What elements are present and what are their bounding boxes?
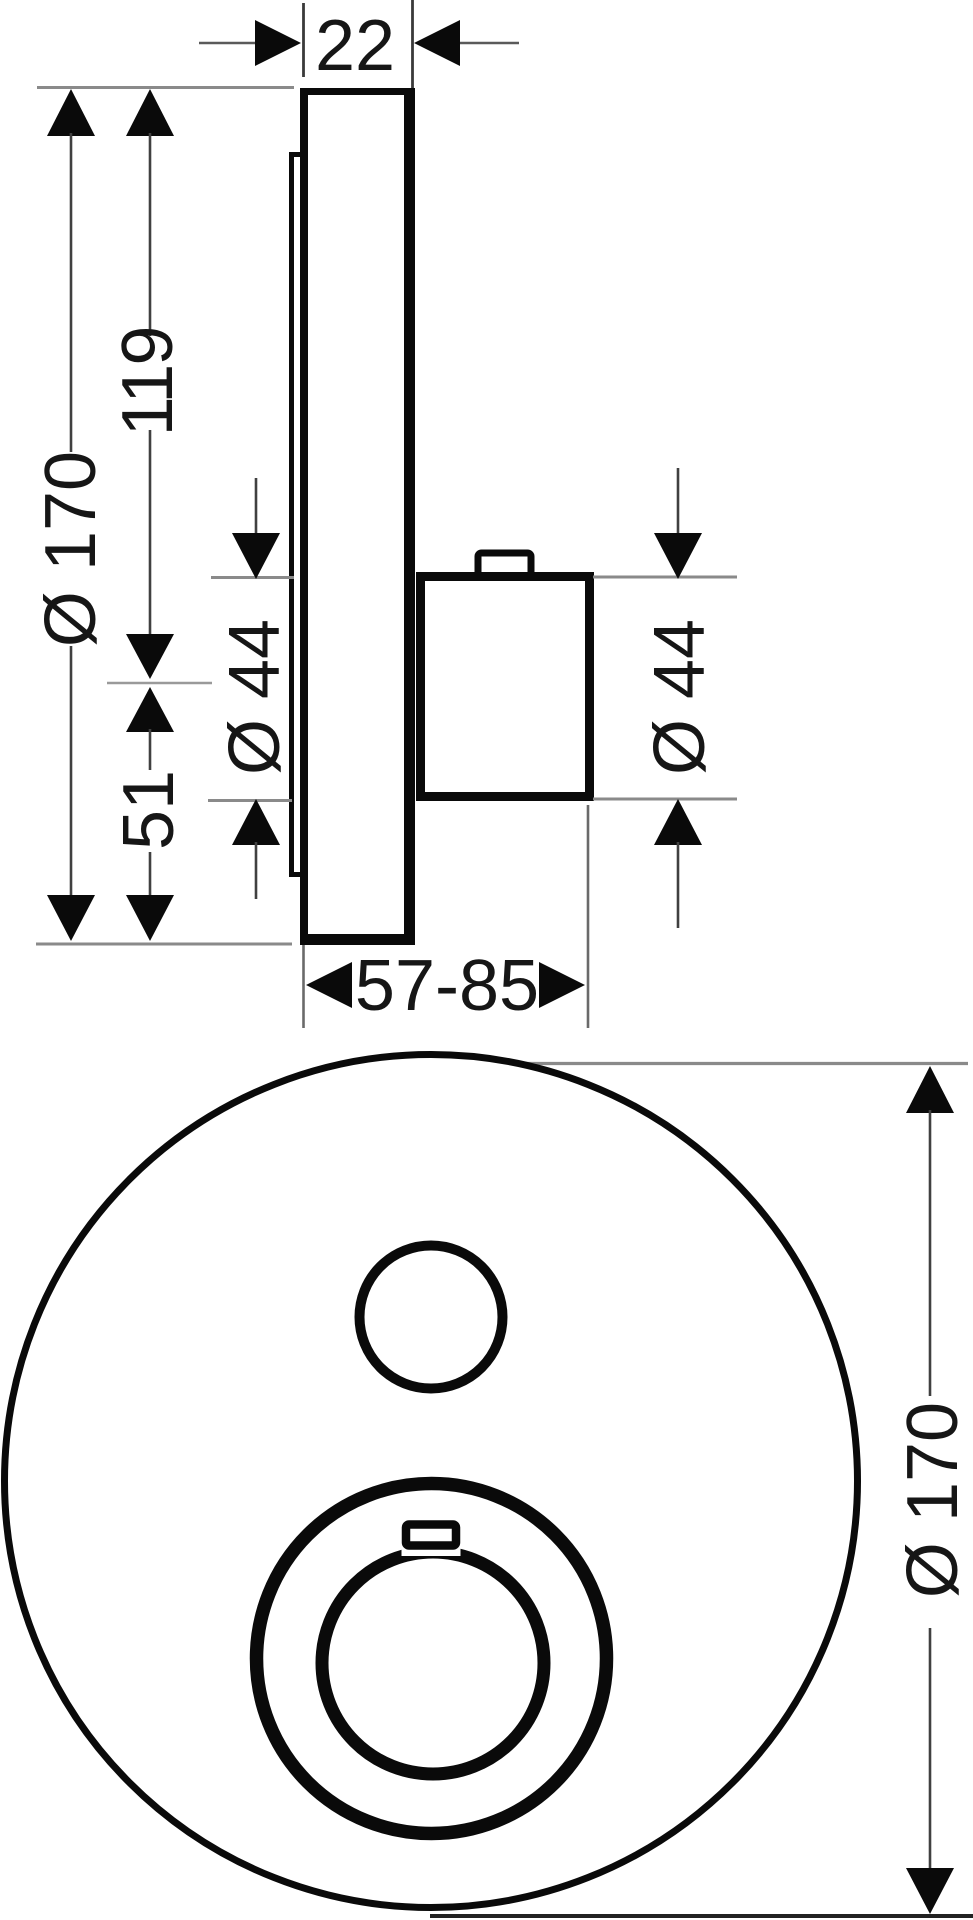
svg-text:51: 51 bbox=[109, 770, 189, 850]
svg-text:22: 22 bbox=[315, 6, 395, 86]
svg-text:119: 119 bbox=[108, 328, 188, 437]
svg-text:Ø 170: Ø 170 bbox=[31, 451, 111, 647]
svg-text:Ø 44: Ø 44 bbox=[215, 619, 295, 775]
svg-text:57-85: 57-85 bbox=[355, 946, 539, 1026]
svg-text:Ø 44: Ø 44 bbox=[640, 619, 720, 775]
svg-text:Ø 170: Ø 170 bbox=[893, 1402, 973, 1598]
